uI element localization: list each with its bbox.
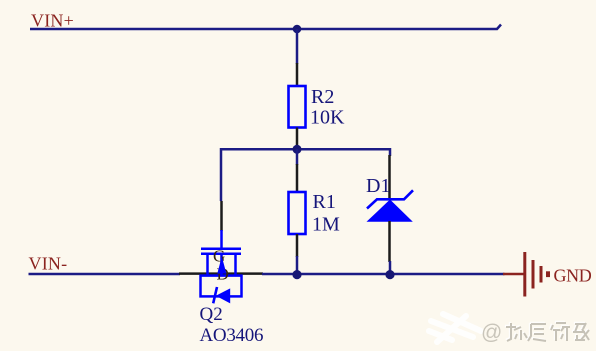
wire from top node to R2 pin xyxy=(296,29,299,64)
watermark white scribble xyxy=(429,314,481,342)
hanzi 2 xyxy=(528,324,546,341)
Q2 substrate arrow xyxy=(217,257,226,274)
pin Q2 source/drain rail (black) xyxy=(179,272,263,275)
wire middle horizontal net xyxy=(221,148,390,151)
svg-text:Q2: Q2 xyxy=(200,304,223,325)
svg-text:GND: GND xyxy=(554,265,592,285)
ground bar 2 xyxy=(532,260,535,289)
wire gate branch vertical xyxy=(220,148,223,201)
hanzi 4 xyxy=(573,323,589,340)
hanzi 1 xyxy=(506,323,527,341)
node junction top (297,29) xyxy=(293,25,302,34)
pin D1 anode xyxy=(388,221,391,262)
wire VIN- bottom rail left xyxy=(29,273,181,276)
watermark hanzi strokes xyxy=(505,322,588,340)
ground symbol stub xyxy=(503,273,524,276)
Q2 gate lead xyxy=(220,230,223,249)
resistor R2 body xyxy=(289,86,306,128)
pin R2.1 xyxy=(296,63,299,86)
Q2 body-diode box xyxy=(201,276,242,297)
pin D1 cathode xyxy=(388,155,391,199)
ground bar 3 xyxy=(540,266,543,283)
node junction middle (297,149) xyxy=(293,145,302,154)
svg-text:VIN-: VIN- xyxy=(29,254,68,274)
node junction bottom-R1 (297,274) xyxy=(292,270,301,279)
pin R1.1 xyxy=(296,164,299,192)
Q2 body diode cathode bar xyxy=(213,287,217,303)
ground bar 1 xyxy=(523,252,526,297)
node junction bottom-D1 (390,274) xyxy=(385,270,394,279)
pin R1.2 xyxy=(296,234,299,257)
svg-text:D1: D1 xyxy=(366,175,390,197)
wire VIN+ top rail xyxy=(30,25,501,30)
Q2 left leg xyxy=(206,254,209,276)
svg-text:VIN+: VIN+ xyxy=(31,11,74,31)
svg-text:10K: 10K xyxy=(310,107,345,129)
wire R1 to bottom rail xyxy=(296,256,299,274)
svg-text:@: @ xyxy=(481,321,502,344)
Q2 channel bar xyxy=(201,252,241,255)
Q2 right leg xyxy=(234,254,237,276)
wire node to R1 xyxy=(296,149,299,165)
resistor R1 body xyxy=(289,192,306,234)
svg-text:AO3406: AO3406 xyxy=(200,325,264,346)
pin Q2 gate xyxy=(220,201,223,231)
svg-text:R2: R2 xyxy=(311,86,334,108)
wire bottom rail right xyxy=(262,273,505,276)
svg-text:R1: R1 xyxy=(313,191,336,213)
Q2 body diode triangle xyxy=(216,288,230,303)
svg-text:1M: 1M xyxy=(312,213,340,235)
wire node to D1 xyxy=(389,148,392,156)
transistor Q2 MOSFET symbol xyxy=(201,230,242,296)
Q2 bulk stem xyxy=(220,254,223,275)
diode D1 zener bar xyxy=(367,190,413,208)
hanzi 3 xyxy=(551,323,570,341)
ground dot xyxy=(546,271,550,277)
diode D1 triangle xyxy=(367,200,413,222)
Q2 gate bar xyxy=(201,247,241,250)
pin R2.2 xyxy=(296,128,299,147)
wire D1 to bottom rail xyxy=(389,261,392,274)
